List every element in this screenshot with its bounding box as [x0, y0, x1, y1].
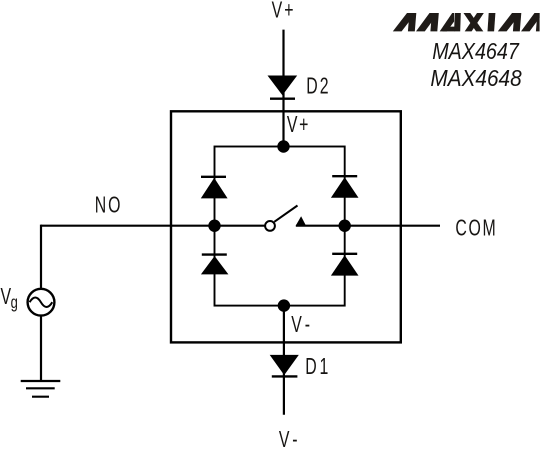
M1 vert1	[408, 13, 416, 31]
node COM right	[339, 220, 351, 232]
wire box top to node	[282, 111, 284, 146]
X s1	[465, 13, 484, 31]
bridge rectangle wires	[215, 147, 345, 306]
wire COM line	[296, 225, 440, 227]
X s2	[464, 13, 484, 31]
svg-text:MAX4648: MAX4648	[430, 65, 522, 91]
A bar	[442, 27, 454, 32]
diode D1	[270, 355, 299, 375]
M1 diag1	[393, 13, 416, 31]
A vert	[454, 13, 461, 31]
svg-text:COM: COM	[455, 215, 497, 241]
svg-text:NO: NO	[95, 192, 123, 218]
M2 diag1	[498, 13, 521, 31]
M1 vert2	[430, 13, 438, 31]
I	[488, 13, 496, 31]
M2 vert1	[513, 13, 521, 31]
node V+ top	[277, 140, 289, 152]
M1 diag2	[416, 13, 438, 31]
node V- bottom	[278, 299, 290, 311]
svg-text:D2: D2	[306, 74, 330, 100]
MAXIM logo	[393, 13, 540, 31]
M2 vert2	[536, 13, 540, 31]
diode bottom-right	[331, 254, 359, 276]
source Vg	[28, 289, 55, 316]
diode top-right	[331, 176, 359, 198]
node NO left	[208, 220, 220, 232]
switch pole circle	[265, 221, 275, 231]
switch arrow	[295, 216, 306, 226]
wire V+ to D2	[282, 30, 284, 112]
svg-text:V: V	[0, 284, 11, 310]
wire left down to source	[40, 225, 42, 289]
A diag	[440, 13, 454, 31]
ground	[21, 381, 61, 397]
svg-text:V+: V+	[272, 0, 296, 23]
wire node to D1	[283, 306, 285, 415]
M2 diag2	[521, 13, 540, 31]
switch arm	[274, 206, 297, 222]
diode D2	[268, 76, 298, 96]
diode top-left	[201, 177, 228, 199]
svg-text:V+: V+	[287, 112, 310, 138]
svg-text:V-: V-	[279, 427, 301, 449]
diode bottom-left	[201, 255, 229, 275]
svg-text:MAX4647: MAX4647	[432, 37, 519, 64]
svg-text:D1: D1	[305, 354, 331, 380]
svg-text:g: g	[11, 293, 18, 313]
IC box	[171, 111, 401, 342]
wire source to ground	[40, 316, 42, 381]
wire NO line	[41, 225, 265, 227]
svg-text:V-: V-	[291, 312, 313, 338]
